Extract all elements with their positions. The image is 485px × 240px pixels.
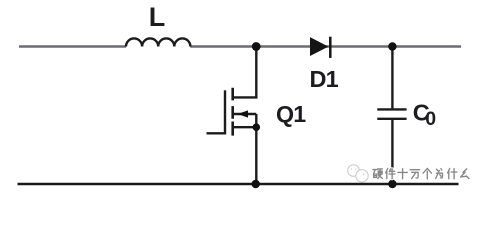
- svg-text:L: L: [149, 2, 166, 32]
- wire C0 bottom lead: [391, 119, 393, 184]
- wire C0 top lead: [391, 47, 393, 110]
- wire Q1 source/body to bottom rail: [255, 114, 257, 184]
- Q1 gate lead: [207, 132, 226, 134]
- capacitor C0: [377, 109, 406, 118]
- transistor Q1 (N-MOSFET): [207, 88, 257, 136]
- watermark logo (two bubbles): [348, 165, 368, 182]
- wire top rail (input to output): [19, 45, 461, 47]
- svg-text:D1: D1: [310, 66, 339, 92]
- wire bottom rail (return): [18, 183, 459, 185]
- Q1 gate plate: [224, 90, 226, 134]
- node: Q1 source-body tie: [252, 123, 260, 131]
- watermark text: 硬件十万个为什么 (drawn strokes): [373, 168, 469, 179]
- label D1: [310, 66, 339, 92]
- label Q1: [276, 101, 306, 127]
- node A: inductor-diode-Q1 drain junction: [252, 42, 261, 51]
- label C0: [413, 100, 437, 130]
- node: C0 bottom at rail: [388, 180, 396, 188]
- node: output top junction: [388, 42, 396, 50]
- label L: [149, 2, 166, 32]
- node: Q1 source at bottom rail: [252, 180, 260, 188]
- diode D1: [311, 37, 331, 58]
- Q1 source tap: [233, 126, 257, 128]
- svg-text:0: 0: [425, 108, 436, 130]
- inductor L: [126, 38, 190, 46]
- wire Q1 drain lead: [233, 47, 257, 98]
- Q1 body tap with arrow: [233, 113, 257, 115]
- svg-text:Q1: Q1: [276, 101, 306, 127]
- Q1 channel segments: [231, 88, 234, 136]
